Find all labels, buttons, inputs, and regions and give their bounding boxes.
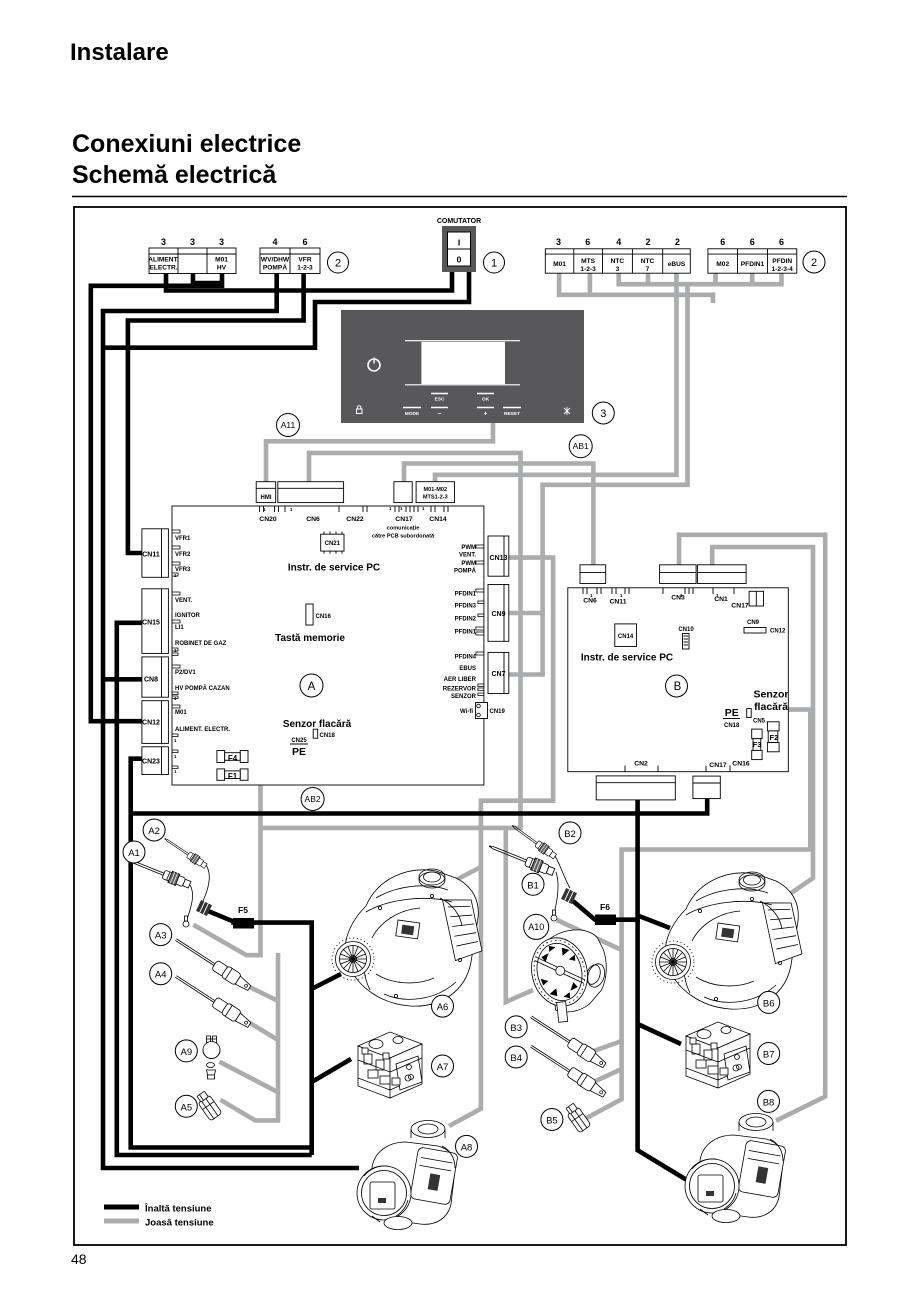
wire gray A4 stub [237, 1015, 278, 1040]
wire gray CN17-A to CN6-B [404, 464, 593, 567]
CN1-B connector box [697, 565, 746, 584]
terminal block left power [148, 237, 236, 274]
svg-text:1-2-3-4: 1-2-3-4 [772, 266, 794, 273]
wire branch to fan B6 [639, 916, 670, 928]
svg-text:F6: F6 [600, 902, 610, 912]
PCB B bottom edge pins [625, 766, 730, 772]
svg-text:0: 0 [457, 255, 462, 265]
svg-text:AB1: AB1 [573, 441, 589, 451]
svg-text:HMI: HMI [261, 495, 272, 501]
node 1 [484, 252, 505, 273]
PCB A outline [172, 506, 484, 785]
svg-text:+: + [484, 410, 488, 417]
wire CN8 stub [103, 677, 142, 682]
svg-text:A7: A7 [437, 1062, 449, 1073]
node 2 right [803, 251, 825, 273]
CN10 connector [678, 627, 694, 649]
wire drop MTS [588, 273, 593, 297]
svg-text:POMPĂ: POMPĂ [454, 568, 477, 575]
svg-text:CN23: CN23 [142, 759, 160, 766]
wire gray A3 stub [238, 981, 278, 1001]
svg-text:PE: PE [292, 746, 306, 758]
PCB B top edge pins [583, 588, 734, 594]
svg-text:CN11: CN11 [609, 599, 626, 606]
svg-text:VENT.: VENT. [459, 553, 476, 559]
svg-text:F5: F5 [238, 905, 248, 915]
svg-text:48: 48 [71, 1251, 87, 1267]
svg-text:flacără: flacără [754, 701, 788, 713]
svg-text:REZERVOR: REZERVOR [443, 687, 477, 693]
title rule [72, 196, 847, 198]
svg-text:PFDIN1: PFDIN1 [455, 592, 477, 598]
svg-text:CN2: CN2 [634, 761, 648, 768]
wire WV/DHW pump feed [103, 274, 359, 1169]
node A5 [175, 1095, 197, 1117]
svg-text:4: 4 [616, 237, 621, 247]
svg-text:CN16: CN16 [316, 614, 332, 620]
svg-text:ALIMENT.: ALIMENT. [148, 257, 179, 264]
wire right terminal row B [619, 273, 782, 284]
valve B7 [686, 1022, 750, 1088]
svg-text:6: 6 [302, 237, 307, 247]
fuse F4 [217, 751, 248, 763]
pressure switch A10 [524, 930, 607, 1022]
node B8 [758, 1090, 780, 1112]
CN16 memory key [306, 604, 332, 625]
PCB A top labels [259, 516, 447, 523]
switch COMUTATOR [437, 218, 481, 272]
svg-text:Instalare: Instalare [70, 39, 169, 66]
svg-text:M01: M01 [175, 710, 187, 716]
svg-text:CN12: CN12 [770, 629, 786, 635]
fuse F3 [752, 729, 762, 760]
node B3 [505, 1016, 527, 1038]
svg-text:−: − [438, 410, 442, 417]
wire gray M01-M02 box to eBUS terminal [435, 273, 677, 482]
CN14-B chip [615, 624, 637, 647]
wire gray CN13-A down to pump A8 [449, 558, 553, 1126]
pin 1 markers [174, 506, 719, 774]
svg-text:CN10: CN10 [678, 627, 694, 633]
svg-text:PWM: PWM [461, 561, 476, 567]
node A2 [143, 819, 165, 841]
svg-text:M01-M02: M01-M02 [423, 487, 447, 493]
svg-text:eBUS: eBUS [668, 261, 686, 268]
svg-text:1-2-3: 1-2-3 [297, 265, 313, 272]
sensor A5 [195, 1090, 223, 1121]
svg-text:A3: A3 [155, 931, 167, 942]
svg-text:CN12: CN12 [142, 720, 160, 727]
svg-text:PE: PE [725, 707, 739, 719]
wire gray CN3-box to pump B8 [679, 535, 825, 1121]
svg-text:SENZOR: SENZOR [451, 694, 477, 700]
svg-text:2: 2 [811, 257, 817, 269]
wire gray CN5-B to right sensor bus [581, 710, 810, 1121]
svg-text:CN17: CN17 [731, 603, 749, 610]
terminal block WV/DHW VFR [260, 237, 320, 274]
svg-text:CN16: CN16 [732, 761, 750, 768]
PCB A right pin tabs [476, 545, 484, 696]
electrode wire B2 [555, 856, 570, 888]
svg-text:HV POMPĂ CAZAN: HV POMPĂ CAZAN [175, 685, 230, 692]
svg-text:NTC: NTC [611, 258, 625, 265]
wire gray cross link A to B low voltage [258, 826, 522, 831]
wire gray B1 stub [557, 920, 622, 950]
svg-text:A1: A1 [128, 848, 140, 859]
wire CN23 vertical [131, 759, 312, 1148]
svg-text:CN9: CN9 [491, 611, 505, 618]
CN15 box [142, 589, 169, 654]
svg-text:B2: B2 [564, 829, 576, 840]
CN7-A box [488, 652, 509, 693]
CN9-B connector [744, 620, 786, 635]
node B4 [505, 1046, 527, 1068]
node A [300, 674, 323, 697]
svg-text:Senzor: Senzor [753, 689, 788, 701]
svg-text:Schemă electrică: Schemă electrică [72, 161, 277, 189]
svg-text:CN9: CN9 [747, 620, 760, 626]
svg-text:A2: A2 [148, 826, 160, 837]
pump B8 [685, 1114, 786, 1223]
svg-text:F4: F4 [228, 754, 238, 763]
svg-text:CN17: CN17 [709, 762, 727, 769]
svg-text:CN14: CN14 [618, 634, 634, 640]
svg-text:B3: B3 [510, 1023, 522, 1034]
svg-text:B1: B1 [527, 880, 539, 891]
svg-text:A8: A8 [461, 1142, 473, 1153]
svg-text:A9: A9 [180, 1047, 192, 1058]
wire gray B4 stub [590, 1069, 622, 1084]
wire drop NTC7 [646, 273, 651, 286]
svg-text:2: 2 [675, 237, 680, 247]
wire branch to fan A6 [311, 974, 342, 990]
wire F5 to burner bus [208, 911, 312, 1155]
wire gray B3 stub [590, 1041, 622, 1052]
node A9 [175, 1040, 197, 1062]
svg-text:3: 3 [600, 408, 606, 420]
svg-text:CN21: CN21 [325, 541, 341, 547]
wire right terminal row A [559, 273, 713, 303]
svg-text:ALIMENT. ELECTR.: ALIMENT. ELECTR. [175, 727, 230, 733]
CN9-A box [488, 585, 509, 642]
wire gray left sensor bracket [220, 955, 278, 1120]
svg-text:COMUTATOR: COMUTATOR [437, 218, 481, 225]
svg-text:A11: A11 [281, 420, 296, 430]
svg-text:CN15: CN15 [142, 620, 160, 627]
fuse F5 [233, 918, 254, 929]
CN6-B connector box [580, 565, 606, 584]
wire switch to left bus [103, 270, 469, 348]
svg-text:7: 7 [646, 266, 650, 273]
svg-text:F3: F3 [753, 740, 762, 749]
electrode wire A2 [203, 865, 209, 901]
svg-text:CN14: CN14 [429, 516, 447, 523]
wire drop PFDIN1 [750, 273, 755, 286]
svg-text:AER LIBER: AER LIBER [444, 677, 477, 683]
node A10 [524, 914, 549, 939]
wire mid cell and M01 HV [193, 274, 222, 284]
wire ALIMENT.ELECTR. to switch [166, 270, 452, 291]
svg-text:B7: B7 [763, 1050, 775, 1061]
svg-text:6: 6 [585, 237, 590, 247]
svg-text:VFR3: VFR3 [175, 567, 191, 573]
node A1 [123, 841, 145, 863]
svg-text:VENT.: VENT. [175, 598, 192, 604]
valve A7 [358, 1032, 422, 1098]
svg-text:I: I [458, 238, 460, 248]
PCB B outline [568, 588, 789, 772]
node A4 [150, 963, 172, 985]
diagram frame [74, 207, 846, 1245]
electrode wire A1 [187, 885, 193, 921]
electrode A2 [162, 835, 208, 870]
svg-text:F1: F1 [228, 772, 238, 781]
sensor B5 [564, 1102, 592, 1133]
CN12 box [142, 701, 169, 744]
svg-text:6: 6 [779, 237, 784, 247]
CN17-B small box [749, 591, 763, 606]
CN17-A connector box [394, 482, 412, 503]
node B1 [522, 873, 544, 895]
svg-text:CN13: CN13 [490, 555, 508, 562]
svg-text:A10: A10 [528, 922, 544, 932]
svg-text:AB2: AB2 [305, 794, 321, 804]
svg-text:IGNITOR: IGNITOR [175, 613, 201, 619]
wire CN15 to gas valve bus [117, 623, 312, 1155]
terminal block right PFDIN [708, 237, 797, 273]
electrode B1 [487, 840, 556, 878]
svg-text:1-2-3: 1-2-3 [580, 266, 596, 273]
electrode wire B1 [554, 872, 558, 914]
temp sensor A3 [172, 934, 253, 993]
PCB A right pin labels [443, 545, 477, 715]
node B2 [559, 822, 581, 844]
electrode A1 [126, 854, 192, 890]
svg-text:PWM: PWM [461, 545, 476, 551]
svg-text:POMPĂ: POMPĂ [263, 263, 287, 272]
svg-text:CN18: CN18 [724, 723, 740, 729]
wire gray CN25-A down left sensor bus [193, 733, 260, 955]
svg-text:CN8: CN8 [144, 677, 158, 684]
svg-text:PFDIN3: PFDIN3 [455, 604, 477, 610]
svg-text:CN5: CN5 [753, 719, 766, 725]
wire gray right terminals to CN9/CN7-A [543, 284, 688, 674]
fuse F6 lead [573, 901, 640, 920]
PE CN18 (B) [723, 707, 740, 729]
wire gray A9 stub [219, 1062, 278, 1093]
terminal block right sensors [545, 237, 690, 273]
fan B6 [652, 872, 803, 1009]
CN11 box [142, 529, 169, 578]
svg-text:Înaltă tensiune: Înaltă tensiune [144, 1203, 212, 1215]
node A6 [432, 995, 454, 1017]
electrode plug A [196, 900, 212, 916]
wire CN9-A stub [509, 611, 545, 616]
svg-text:VFR1: VFR1 [175, 536, 191, 542]
svg-text:Senzor flacără: Senzor flacără [283, 719, 352, 730]
wire gray to A10 pressure switch [506, 828, 533, 1002]
svg-text:F2: F2 [770, 733, 779, 742]
CN21 chip [321, 532, 344, 554]
svg-text:CN6: CN6 [306, 516, 320, 523]
wire M01 HV down to CN12 [91, 274, 222, 722]
wire gray branch to fan A6 [452, 867, 481, 882]
svg-text:1: 1 [491, 258, 497, 270]
fan A6 [332, 869, 483, 1006]
svg-text:LI1: LI1 [175, 625, 184, 631]
svg-text:M01: M01 [553, 261, 566, 268]
node AB1 [569, 435, 592, 458]
legend high voltage [104, 1205, 139, 1210]
wire branch to valve B7 [638, 1024, 681, 1044]
wire drop M02 [713, 273, 718, 286]
svg-text:P2/DV1: P2/DV1 [175, 670, 196, 676]
svg-text:B: B [674, 681, 682, 693]
CN17-B cable box [693, 776, 720, 799]
pump A8 [357, 1121, 458, 1230]
CN8 box [142, 657, 169, 697]
node B5 [541, 1109, 563, 1131]
svg-text:CN17: CN17 [395, 516, 413, 523]
PCB B top labels [583, 595, 749, 610]
svg-text:HV: HV [217, 265, 227, 272]
temp sensor A4 [172, 971, 253, 1030]
svg-text:Joasă tensiune: Joasă tensiune [145, 1218, 214, 1229]
svg-text:3: 3 [190, 237, 195, 247]
svg-text:B6: B6 [763, 998, 775, 1009]
CN6-A connector box [278, 482, 344, 503]
svg-text:MTS: MTS [581, 258, 596, 265]
svg-text:2: 2 [645, 237, 650, 247]
pressure sensor A9 [203, 1036, 220, 1079]
svg-text:PFDIN1: PFDIN1 [741, 261, 765, 268]
control panel 3 [341, 310, 584, 423]
CN18-A connector [313, 729, 335, 739]
svg-text:CN3: CN3 [671, 595, 685, 602]
svg-text:CN25: CN25 [291, 738, 307, 744]
electrode B2 [509, 822, 557, 861]
PCB A top edge pins [260, 506, 448, 512]
CN23 box [142, 747, 169, 775]
svg-text:B4: B4 [510, 1053, 522, 1064]
svg-text:M01: M01 [215, 257, 228, 264]
fuse F1 [217, 769, 248, 781]
svg-text:A6: A6 [437, 1002, 449, 1013]
PCB A left pin tabs [172, 530, 180, 769]
ring terminal A1 [183, 916, 189, 927]
CN3-B connector box [660, 565, 697, 584]
temp sensor B3 [527, 1011, 608, 1070]
svg-text:PFDIN: PFDIN [772, 258, 792, 265]
electrode plug B [561, 888, 577, 904]
svg-text:B5: B5 [546, 1116, 558, 1127]
CN5 connector [747, 709, 766, 725]
temp sensor B4 [527, 1041, 608, 1100]
svg-text:3: 3 [161, 237, 166, 247]
legend low voltage [104, 1219, 139, 1224]
svg-text:RESET: RESET [504, 411, 520, 417]
svg-text:VFR2: VFR2 [175, 552, 191, 558]
svg-text:CN20: CN20 [259, 516, 277, 523]
HMI box [256, 482, 276, 503]
svg-text:Instr. de service PC: Instr. de service PC [581, 653, 673, 664]
svg-text:CN19: CN19 [490, 709, 506, 715]
node 3 [592, 402, 614, 424]
svg-text:NTC: NTC [641, 258, 655, 265]
fuse F6 [595, 915, 616, 926]
svg-text:M02: M02 [716, 261, 729, 268]
wire CN7-A stub [509, 672, 545, 677]
svg-text:PFDIN2: PFDIN2 [455, 617, 477, 623]
wire branch to valve A7 [312, 1059, 351, 1082]
svg-text:B8: B8 [763, 1097, 775, 1108]
svg-text:CN18: CN18 [320, 733, 336, 739]
svg-text:WV/DHW: WV/DHW [261, 257, 290, 264]
node A7 [432, 1055, 454, 1077]
svg-text:ROBINET DE GAZ: ROBINET DE GAZ [175, 641, 227, 647]
svg-text:Instr. de service PC: Instr. de service PC [288, 563, 380, 574]
wire gray HMI feed from control panel [266, 422, 493, 482]
PCB B bottom labels [634, 761, 750, 769]
svg-text:CN7: CN7 [491, 671, 505, 678]
svg-text:Tastă memorie: Tastă memorie [275, 633, 345, 644]
svg-text:4: 4 [272, 237, 277, 247]
svg-text:comunicație: comunicație [387, 526, 420, 532]
PCB A left pin labels [175, 536, 230, 733]
node A11 [277, 414, 300, 437]
svg-text:Wi-fi: Wi-fi [460, 709, 473, 715]
node A3 [150, 924, 172, 946]
svg-text:Conexiuni electrice: Conexiuni electrice [72, 130, 301, 158]
svg-text:CN6: CN6 [583, 598, 597, 605]
svg-text:3: 3 [616, 266, 620, 273]
fuse F2 [767, 722, 779, 752]
svg-text:PFDIN4: PFDIN4 [455, 655, 477, 661]
node B6 [758, 991, 780, 1013]
svg-text:ELECTR.: ELECTR. [149, 265, 177, 272]
CN13 box [488, 536, 509, 576]
wire CN2-B power trunk down [638, 798, 695, 1185]
CN2-B cable box [596, 776, 675, 800]
svg-text:6: 6 [750, 237, 755, 247]
svg-text:A5: A5 [180, 1102, 192, 1113]
svg-text:ESC: ESC [435, 397, 445, 403]
svg-text:MTS1-2-3: MTS1-2-3 [423, 495, 448, 501]
svg-text:6: 6 [720, 237, 725, 247]
svg-text:OK: OK [482, 397, 490, 403]
node AB2 [301, 788, 324, 811]
CN19 connector [476, 703, 506, 719]
svg-text:3: 3 [556, 237, 561, 247]
svg-text:CN22: CN22 [346, 516, 364, 523]
node B [666, 675, 688, 697]
svg-text:A: A [308, 681, 316, 693]
svg-text:VFR: VFR [298, 257, 311, 264]
node 2 left [328, 252, 349, 273]
svg-text:PFDIN1: PFDIN1 [455, 630, 477, 636]
CN25 PE [290, 738, 308, 758]
wire VFR to CN11 [128, 274, 304, 554]
wire gray CN1-box to fan B6 [712, 547, 813, 895]
svg-text:MODE: MODE [405, 411, 420, 417]
svg-text:CN11: CN11 [142, 552, 160, 559]
svg-text:3: 3 [219, 237, 224, 247]
svg-text:A4: A4 [155, 970, 167, 981]
ring terminal B1 [551, 910, 557, 921]
wire gray CN6-A to mid vertical [309, 453, 521, 828]
wire high voltage link A to B [131, 797, 708, 814]
svg-text:către PCB subordonată: către PCB subordonată [372, 534, 435, 540]
